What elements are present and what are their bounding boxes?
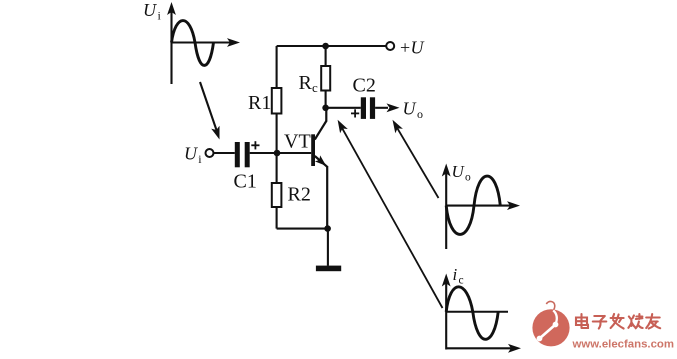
capacitor C1 [235, 142, 250, 167]
svg-text:o: o [417, 107, 423, 121]
svg-text:U: U [184, 144, 198, 164]
input waveform graph Ui : horizontal axis [172, 38, 241, 47]
label Uo (graph) [452, 162, 472, 184]
wire collector node to C2 [326, 107, 361, 109]
plus sign of C1 [251, 141, 259, 149]
svg-text:U: U [452, 162, 466, 181]
wire C1 to base node [250, 152, 312, 154]
collector current graph ic : bias midline [446, 311, 508, 313]
svg-text:c: c [312, 80, 318, 95]
svg-text:U: U [411, 38, 425, 58]
label Ui (top-left graph) [143, 0, 162, 23]
svg-text:R: R [299, 72, 313, 94]
node: emitter junction dot [324, 225, 331, 232]
label +U [400, 38, 425, 58]
ground [316, 266, 341, 272]
label Uo (output) [403, 99, 424, 122]
svg-text:C2: C2 [353, 75, 376, 97]
svg-text:i: i [453, 265, 458, 284]
label Ui (input terminal) [184, 144, 202, 167]
svg-text:U: U [403, 99, 417, 119]
svg-text:R1: R1 [248, 92, 271, 114]
annotation arrow from ic graph to collector node [334, 118, 443, 308]
watermark text 电子发烧友 (hand-drawn strokes) [576, 314, 660, 329]
node: rail junction dot [322, 43, 329, 50]
svg-text:o: o [465, 172, 471, 184]
wire R2 bottom to emitter column [277, 228, 328, 230]
label Rc [299, 72, 319, 95]
+U terminal circle [386, 42, 394, 50]
annotation arrow from Uo graph to output [389, 118, 439, 198]
wire terminal to C1 [214, 152, 235, 154]
svg-text:+: + [400, 38, 410, 58]
output waveform graph Uo : vertical axis [442, 164, 451, 250]
output waveform graph Uo : horizontal axis [446, 201, 520, 210]
annotation arrow from Ui waveform to input terminal [200, 82, 224, 141]
resistor R2 [272, 153, 282, 229]
watermark logo elecfans [532, 301, 569, 346]
wire: +U supply rail [277, 45, 387, 47]
collector current graph ic : sine wave [446, 287, 498, 340]
input waveform graph Ui : vertical axis [167, 2, 176, 84]
wire emitter node to ground [327, 229, 329, 266]
svg-text:c: c [459, 275, 464, 287]
svg-text:www.elecfans.com: www.elecfans.com [572, 339, 675, 351]
svg-text:U: U [143, 0, 157, 20]
resistor Rc [321, 46, 330, 108]
output arrow to Uo [375, 103, 399, 112]
label ic (graph) [453, 265, 464, 287]
plus sign of C2 [351, 109, 359, 117]
transistor VT : collector lead [315, 121, 327, 140]
output waveform graph Uo : inverted sine wave [446, 176, 500, 234]
input terminal circle [206, 149, 214, 157]
collector current graph ic : vertical axis [442, 274, 451, 350]
svg-text:R2: R2 [288, 184, 311, 206]
capacitor C2 [361, 97, 375, 119]
collector current graph ic : horizontal axis [446, 344, 521, 353]
transistor VT : base bar [311, 134, 315, 166]
input waveform graph Ui : sine wave [172, 21, 214, 66]
transistor VT : emitter lead with arrow [315, 156, 327, 167]
svg-text:VT: VT [284, 131, 311, 153]
node: collector junction dot [322, 105, 329, 112]
resistor R1 [272, 46, 282, 153]
node: base junction dot [274, 150, 281, 157]
svg-text:C1: C1 [234, 171, 257, 193]
